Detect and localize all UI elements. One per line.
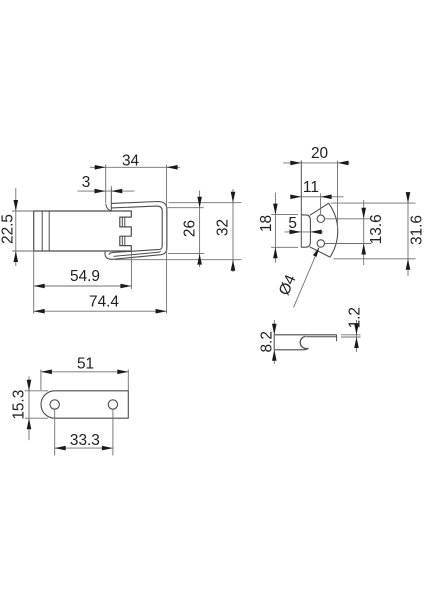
- dim 3 arrow left: [95, 189, 106, 194]
- dim 20 line: [283, 162, 350, 164]
- dim 33.3 arrow left: [55, 446, 66, 451]
- dim 18 arrow bottom: [273, 247, 278, 258]
- dim 15.3 arrow bottom: [27, 418, 32, 429]
- svg-text:3: 3: [82, 174, 91, 191]
- latch body outline: [34, 211, 132, 251]
- body left ext down: [33, 251, 35, 314]
- svg-text:18: 18: [258, 215, 275, 232]
- notch1 inner verticals: [121, 217, 123, 227]
- svg-text:32: 32: [215, 219, 232, 236]
- dim 32 arrow top: [231, 192, 236, 203]
- lever front edge: [110, 189, 112, 211]
- svg-text:15.3: 15.3: [11, 390, 28, 420]
- dim 13.6 ext bottom: [325, 243, 372, 245]
- dia4 leader line: [294, 248, 319, 308]
- dim 22.5 line: [15, 188, 17, 266]
- hook curl inner C: [300, 336, 308, 348]
- hole bottom: [317, 240, 324, 247]
- dim 31.6 line: [407, 192, 409, 276]
- dim 31.6 arrow bottom: [406, 259, 411, 270]
- dim 3 line: [78, 190, 135, 192]
- dim 22.5 ext top: [12, 210, 34, 212]
- dim 22.5 arrow top: [14, 200, 19, 211]
- dim 26 line: [199, 191, 201, 268]
- hole top: [317, 215, 324, 222]
- dim 5 arrow left: [290, 230, 302, 235]
- plate tab outline: [301, 215, 310, 247]
- dim 18 ext top: [271, 214, 298, 216]
- dim 8.2 arrow top: [272, 324, 277, 335]
- svg-text:20: 20: [311, 145, 328, 162]
- base plate hole left: [50, 400, 59, 409]
- base plate hole right: [108, 400, 117, 409]
- dim 5 arrow right: [310, 230, 322, 235]
- dim 11 arrow right: [321, 195, 332, 200]
- dim 51 line: [41, 371, 128, 373]
- dim 8.2 arrow bottom: [272, 350, 277, 361]
- dim 33.3 line: [55, 447, 113, 449]
- dim 32 arrow bottom: [231, 260, 236, 271]
- dim 31.6 ext bottom: [334, 258, 416, 260]
- svg-text:Ø4: Ø4: [276, 272, 300, 298]
- dim 15.3 ext bottom: [25, 417, 48, 419]
- notch2 inner verticals: [121, 236, 123, 245]
- svg-text:74.4: 74.4: [89, 293, 119, 310]
- dim 33.3 ext left: [54, 410, 56, 456]
- dim 18 ext bottom: [271, 246, 298, 248]
- dim 13.6 ext top: [325, 218, 372, 220]
- dim 5 line: [285, 231, 324, 233]
- dim 20 ext right: [337, 161, 339, 232]
- base plate outline: [41, 391, 128, 418]
- dim 18 line: [274, 193, 276, 263]
- dim 31.6 ext top: [331, 202, 416, 204]
- dim 74.4 arrow right: [156, 309, 167, 314]
- svg-text:34: 34: [122, 153, 140, 170]
- svg-text:8.2: 8.2: [258, 331, 275, 352]
- dim 11 arrow left: [290, 195, 301, 200]
- dim 13.6 arrow bottom: [361, 244, 366, 255]
- dim 15.3 arrow top: [27, 380, 32, 391]
- dim 34 line: [90, 166, 180, 168]
- bail inner outline: [109, 206, 162, 255]
- spring housing vertical line a: [41, 211, 43, 251]
- dim 13.6 arrow top: [361, 208, 366, 219]
- dim 51 arrow left: [41, 370, 52, 375]
- hook bar left edge: [273, 335, 275, 350]
- dim 74.4 line: [34, 310, 167, 312]
- svg-text:33.3: 33.3: [70, 432, 100, 449]
- dim 34 arrow right: [167, 165, 178, 170]
- dim 51 arrow right: [117, 370, 128, 375]
- svg-text:1.2: 1.2: [347, 307, 364, 328]
- dim 33.3 arrow right: [102, 446, 113, 451]
- svg-text:5: 5: [288, 215, 297, 232]
- dim 3 ext right: [110, 186, 112, 189]
- dim 1.2 ext bottom: [341, 336, 361, 338]
- dim 18 arrow top: [273, 204, 278, 215]
- svg-text:22.5: 22.5: [0, 214, 17, 244]
- svg-text:11: 11: [303, 179, 319, 196]
- plate left edge: [300, 161, 302, 248]
- dim 22.5 ext bottom: [12, 250, 34, 252]
- bail outer outline: [105, 202, 167, 260]
- dim 54.9 arrow right: [120, 284, 131, 289]
- dim 51 ext left: [40, 370, 42, 391]
- svg-text:31.6: 31.6: [409, 215, 424, 245]
- dim 31.6 arrow top: [406, 192, 411, 203]
- svg-text:54.9: 54.9: [70, 268, 100, 285]
- hook bar bottom edge: [274, 348, 308, 349]
- dim 8.2 line: [273, 320, 275, 364]
- dim 54.9 ext right: [130, 251, 132, 289]
- dim 3 arrow right: [111, 189, 122, 194]
- dim 32 line: [232, 189, 234, 272]
- dim 51 ext right: [127, 370, 129, 391]
- dim 1.2 arrow bottom: [354, 337, 359, 348]
- plate body outline: [310, 203, 338, 257]
- dim 15.3 line: [28, 376, 30, 440]
- dim 1.2 ext top: [341, 334, 361, 336]
- hook strip bottom line: [306, 336, 337, 338]
- dim 13.6 line: [363, 200, 365, 265]
- dim 11 ext right (hole centerline): [320, 193, 322, 215]
- dim 74.4 arrow left: [34, 309, 45, 314]
- hook bar top edge + strip top line: [274, 334, 337, 336]
- dia4 leader arrow: [313, 247, 319, 257]
- svg-text:13.6: 13.6: [368, 214, 385, 244]
- spring housing vertical line b: [48, 211, 50, 251]
- dim 54.9 line: [34, 285, 132, 287]
- hook strip end lip: [336, 335, 338, 342]
- dim 1.2 line: [356, 320, 358, 352]
- dim 34/74.4 extension right: [166, 165, 168, 314]
- dim 22.5 arrow bottom: [14, 251, 19, 262]
- bail mid contour line: [114, 252, 161, 257]
- dim 20 arrow right: [338, 161, 349, 166]
- bail left curl small curve: [106, 204, 111, 211]
- dim 26 arrow bottom: [197, 254, 202, 265]
- dim 32 ext bottom: [115, 259, 242, 261]
- dim 15.3 ext top: [25, 390, 48, 392]
- svg-text:51: 51: [77, 355, 94, 372]
- dim 26 ext bottom: [168, 253, 204, 255]
- dim 1.2 arrow top: [354, 324, 359, 335]
- dim 20 arrow left: [290, 161, 301, 166]
- dim 54.9 arrow left: [34, 284, 45, 289]
- dim 33.3 ext right: [112, 410, 114, 456]
- dim 11 line: [292, 196, 344, 198]
- dim 34 extension left: [105, 164, 107, 203]
- dim 34 arrow left: [95, 165, 106, 170]
- dim 32 ext top: [169, 202, 242, 204]
- dim 26 arrow top: [197, 197, 202, 208]
- dim 26 ext top: [168, 207, 204, 209]
- svg-text:26: 26: [182, 220, 199, 237]
